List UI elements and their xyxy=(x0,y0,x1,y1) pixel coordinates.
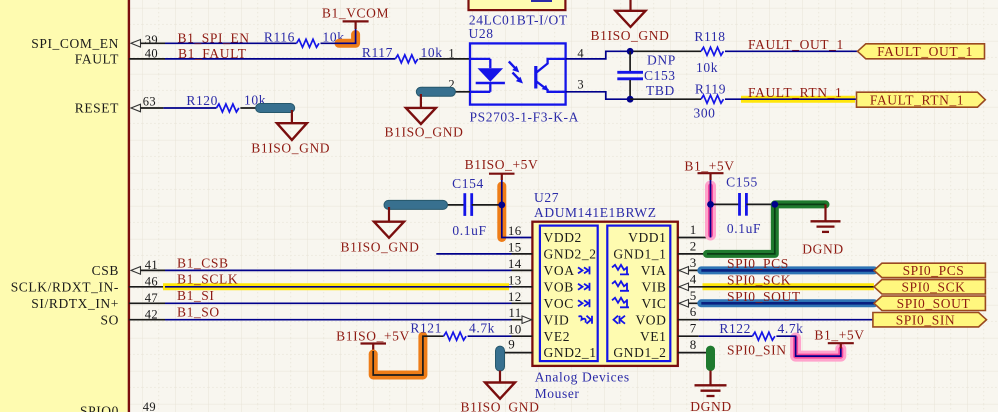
ground B1ISO_GND (pin9, clipped) xyxy=(461,371,540,412)
port SPI0_PCS xyxy=(874,263,985,278)
capacitor C155 xyxy=(711,175,775,237)
svg-text:VOB: VOB xyxy=(544,279,574,294)
U27 right pin names xyxy=(613,230,666,360)
pin 46 stub wire xyxy=(129,286,165,288)
svg-text:FAULT: FAULT xyxy=(75,52,119,67)
port FAULT_OUT_1 xyxy=(858,44,985,59)
svg-text:12: 12 xyxy=(508,289,522,304)
wire R121 to pin10 xyxy=(468,335,512,337)
svg-text:1: 1 xyxy=(690,222,697,237)
svg-text:SPI0_SIN: SPI0_SIN xyxy=(727,343,787,358)
svg-text:SI/RDTX_IN+: SI/RDTX_IN+ xyxy=(31,296,119,311)
pin 42 stub wire xyxy=(129,319,165,321)
power B1_+5V (C155) xyxy=(684,159,734,181)
svg-text:R117: R117 xyxy=(362,45,393,60)
wire U28 pin4 to node xyxy=(566,51,631,59)
svg-text:300: 300 xyxy=(693,106,715,121)
U28 pin2 stub xyxy=(455,91,470,93)
svg-text:10: 10 xyxy=(508,322,522,337)
svg-text:RESET: RESET xyxy=(75,101,119,116)
svg-text:VOD: VOD xyxy=(635,312,666,327)
svg-text:R118: R118 xyxy=(694,29,725,44)
svg-text:B1ISO_+5V: B1ISO_+5V xyxy=(465,157,539,172)
teal net-color bar U28 pin2 xyxy=(416,87,455,96)
wire B1ISO_+5V to R121 (orange highlight) xyxy=(373,336,443,375)
wire B1_SO xyxy=(165,319,512,321)
wire pin8 to DGND xyxy=(710,353,712,371)
svg-text:SPI0_SIN: SPI0_SIN xyxy=(896,312,956,327)
svg-text:B1_+5V: B1_+5V xyxy=(814,328,864,343)
svg-text:2: 2 xyxy=(690,238,697,253)
ground B1ISO_GND (top) xyxy=(591,0,670,43)
resistor R120 xyxy=(186,93,266,113)
U27 right pin numbers xyxy=(690,222,697,352)
svg-text:SPI0_SCK: SPI0_SCK xyxy=(901,279,965,294)
svg-text:0.1uF: 0.1uF xyxy=(452,223,486,238)
svg-text:VDD1: VDD1 xyxy=(628,230,666,245)
wire R122 to B1_+5V (pink highlight) xyxy=(776,336,840,356)
wire GND1_1 to DGND (green highlight) xyxy=(707,204,826,254)
svg-text:DGND: DGND xyxy=(690,399,731,412)
wire B1_SPI_EN left xyxy=(165,42,297,44)
node junction bottom of C153 xyxy=(627,96,634,103)
svg-text:3: 3 xyxy=(577,78,584,92)
wire R117 to U28 pin1 xyxy=(419,58,470,60)
svg-text:1: 1 xyxy=(448,47,455,61)
svg-text:VE1: VE1 xyxy=(640,329,667,344)
resistor R121 xyxy=(410,321,495,341)
svg-text:VOA: VOA xyxy=(544,263,575,278)
power B1ISO_+5V (R121) xyxy=(336,329,410,352)
U27 left pin names xyxy=(544,230,597,360)
svg-text:SPI0_SCK: SPI0_SCK xyxy=(727,272,791,287)
pin 40 stub wire xyxy=(129,58,165,60)
svg-text:5: 5 xyxy=(690,288,697,303)
svg-text:FAULT_OUT_1: FAULT_OUT_1 xyxy=(877,44,973,59)
svg-text:B1ISO_GND: B1ISO_GND xyxy=(461,400,540,412)
svg-text:VID: VID xyxy=(544,312,570,327)
green net-color bar pin8 xyxy=(706,346,715,372)
teal net-color bar C154 xyxy=(384,200,448,209)
svg-text:VIB: VIB xyxy=(641,279,666,294)
svg-text:C155: C155 xyxy=(726,175,758,190)
ground B1ISO_GND (C154) xyxy=(341,207,420,255)
svg-text:14: 14 xyxy=(508,256,522,271)
svg-text:PS2703-1-F3-K-A: PS2703-1-F3-K-A xyxy=(470,110,580,125)
svg-text:B1ISO_GND: B1ISO_GND xyxy=(251,141,330,156)
power B1_+5V (R122) xyxy=(814,328,864,349)
capacitor C154 xyxy=(447,176,502,238)
svg-text:C153: C153 xyxy=(644,68,676,83)
svg-text:11: 11 xyxy=(508,305,521,320)
pin 11 input arrow xyxy=(522,316,532,324)
svg-text:4: 4 xyxy=(690,271,697,286)
teal net-color bar pin9 xyxy=(496,346,505,371)
svg-text:SPI0_PCS: SPI0_PCS xyxy=(903,263,965,278)
svg-text:SO: SO xyxy=(101,312,119,327)
port FAULT_RTN_1 xyxy=(857,92,986,107)
wire U28 pin3 to node xyxy=(566,92,631,99)
wire node to R119 xyxy=(630,98,701,100)
pin 3 input arrow xyxy=(679,267,689,275)
U28 light arrows xyxy=(509,62,523,84)
svg-text:VIA: VIA xyxy=(641,263,667,278)
connector J? left block body xyxy=(0,0,129,412)
U28 LED xyxy=(470,59,505,92)
svg-text:R121: R121 xyxy=(410,321,442,336)
svg-text:VDD2: VDD2 xyxy=(544,230,582,245)
svg-text:B1_SO: B1_SO xyxy=(177,305,220,320)
svg-text:B1_VCOM: B1_VCOM xyxy=(322,6,389,21)
capacitor C153 xyxy=(617,51,676,99)
svg-text:SPI0_PCS: SPI0_PCS xyxy=(727,256,789,271)
svg-text:GND1_2: GND1_2 xyxy=(613,345,666,360)
wire B1ISO_+5V down to pin16 (orange highlight) xyxy=(502,180,533,238)
svg-text:4.7k: 4.7k xyxy=(778,321,804,336)
svg-text:VE2: VE2 xyxy=(544,329,571,344)
svg-text:15: 15 xyxy=(508,239,522,254)
svg-text:B1_SCLK: B1_SCLK xyxy=(177,272,238,287)
wire B1_FAULT xyxy=(165,58,395,60)
svg-text:7: 7 xyxy=(690,321,697,336)
svg-text:B1ISO_GND: B1ISO_GND xyxy=(591,28,670,43)
svg-text:R120: R120 xyxy=(186,93,218,108)
svg-text:VOC: VOC xyxy=(544,296,574,311)
resistor R122 xyxy=(719,321,803,340)
ground B1ISO_GND (U28 pin2) xyxy=(385,94,464,140)
svg-text:U28: U28 xyxy=(469,26,494,41)
pin 47 stub wire xyxy=(129,302,165,304)
resistor R116 xyxy=(264,29,345,47)
svg-text:SPIO0: SPIO0 xyxy=(80,404,119,412)
isolator U27 body xyxy=(532,222,677,366)
svg-text:10k: 10k xyxy=(696,60,718,75)
svg-text:B1_+5V: B1_+5V xyxy=(684,159,734,174)
pin 41 stub wire xyxy=(131,267,165,275)
node junction C155/GND xyxy=(771,201,778,208)
svg-text:SPI0_SOUT: SPI0_SOUT xyxy=(727,289,801,304)
power B1ISO_+5V (C154) xyxy=(465,157,539,180)
svg-text:FAULT_RTN_1: FAULT_RTN_1 xyxy=(870,92,964,107)
port SPI0_SOUT xyxy=(874,296,985,311)
svg-text:ADUM141E1BRWZ: ADUM141E1BRWZ xyxy=(534,205,657,220)
wire pin9 to ground xyxy=(499,353,501,371)
svg-text:DNP: DNP xyxy=(647,53,676,68)
svg-text:8: 8 xyxy=(690,337,697,352)
svg-text:GND2_1: GND2_1 xyxy=(544,345,597,360)
svg-text:B1_SI: B1_SI xyxy=(177,288,215,303)
pin 4 input arrow xyxy=(679,283,689,291)
svg-text:GND1_1: GND1_1 xyxy=(613,247,666,262)
svg-text:SCLK/RDXT_IN-: SCLK/RDXT_IN- xyxy=(11,279,119,294)
wire R119 to port (yellow highlight) xyxy=(725,96,857,103)
node junction B1_+5V/C155 xyxy=(707,201,714,208)
wire R120 right xyxy=(240,107,258,109)
resistor R118 xyxy=(694,29,725,75)
wire GND2_2 stub (pin15) xyxy=(436,253,511,255)
port SPI0_SIN xyxy=(873,312,987,327)
U27 left pin stubs xyxy=(500,254,532,353)
svg-text:VIC: VIC xyxy=(641,296,666,311)
svg-text:63: 63 xyxy=(143,95,156,109)
pin 63 stub wire xyxy=(131,104,163,112)
ground B1ISO_GND (R120) xyxy=(251,110,330,156)
teal net-color bar R120 xyxy=(256,104,295,113)
U28 photo-transistor xyxy=(536,59,566,92)
wire B1_CSB xyxy=(165,269,512,271)
ground DGND (pin8) xyxy=(690,371,731,412)
svg-text:49: 49 xyxy=(143,400,156,412)
svg-text:FAULT_RTN_1: FAULT_RTN_1 xyxy=(748,85,842,100)
power B1_VCOM xyxy=(322,6,389,30)
wire R116 to B1_VCOM (orange highlight) xyxy=(321,29,356,44)
svg-text:9: 9 xyxy=(508,337,515,352)
port SPI0_SCK xyxy=(874,279,985,294)
wire RESET to R120 xyxy=(163,107,216,109)
pin 39 stub wire xyxy=(131,40,165,48)
svg-text:B1ISO_GND: B1ISO_GND xyxy=(341,240,420,255)
wire R118 to port xyxy=(725,50,858,52)
svg-text:13: 13 xyxy=(508,272,522,287)
svg-text:B1_SPI_EN: B1_SPI_EN xyxy=(178,31,250,46)
svg-text:3: 3 xyxy=(690,255,697,270)
svg-text:GND2_2: GND2_2 xyxy=(544,247,597,262)
ground DGND (C155) xyxy=(802,204,843,256)
svg-text:4.7k: 4.7k xyxy=(469,321,495,336)
svg-text:C154: C154 xyxy=(452,176,484,191)
svg-text:10k: 10k xyxy=(421,45,443,60)
24LC01 component clipped box xyxy=(469,0,566,10)
svg-text:FAULT_OUT_1: FAULT_OUT_1 xyxy=(748,37,844,52)
U27 channel icons xyxy=(578,265,629,324)
wire VE1 to R122 xyxy=(699,335,753,337)
svg-text:16: 16 xyxy=(508,223,522,238)
wire SPI0_SOUT (blue highlight) xyxy=(701,299,874,307)
svg-text:B1_CSB: B1_CSB xyxy=(177,255,229,270)
wire B1_SI xyxy=(165,302,512,304)
wire B1_SCLK (yellow highlight) xyxy=(163,283,512,290)
svg-text:6: 6 xyxy=(690,304,697,319)
svg-text:R116: R116 xyxy=(264,29,295,44)
svg-text:B1ISO_GND: B1ISO_GND xyxy=(385,125,464,140)
svg-text:Mouser: Mouser xyxy=(535,386,580,401)
opto-coupler U28 box xyxy=(470,43,566,104)
wire node to R118 xyxy=(630,50,701,52)
wire B1_+5V down to pin1 (pink highlight) xyxy=(705,180,716,238)
node junction top of C153 xyxy=(627,48,634,55)
svg-text:4: 4 xyxy=(577,47,584,61)
wire SPI0_SCK (yellow highlight) xyxy=(703,283,875,290)
U27 right pin stubs xyxy=(678,238,711,353)
node junction C154/B1ISO_+5V xyxy=(498,202,505,209)
resistor R117 xyxy=(362,45,443,63)
wire SPI0_PCS (blue highlight) xyxy=(701,266,874,274)
svg-text:U27: U27 xyxy=(534,190,559,205)
pin 5 input arrow xyxy=(679,300,689,308)
svg-text:Analog Devices: Analog Devices xyxy=(535,370,630,385)
U27 left pin numbers xyxy=(508,223,522,352)
svg-text:B1ISO_+5V: B1ISO_+5V xyxy=(336,329,410,344)
wire SPI0_SIN xyxy=(699,319,873,321)
svg-text:SPI0_SOUT: SPI0_SOUT xyxy=(897,296,971,311)
svg-text:B1_FAULT: B1_FAULT xyxy=(178,46,247,61)
svg-text:39: 39 xyxy=(145,33,158,47)
svg-text:R122: R122 xyxy=(719,321,751,336)
svg-text:DGND: DGND xyxy=(802,242,843,257)
svg-text:SPI_COM_EN: SPI_COM_EN xyxy=(31,36,119,51)
resistor R119 xyxy=(693,82,726,121)
svg-text:0.1uF: 0.1uF xyxy=(727,221,761,236)
svg-text:TBD: TBD xyxy=(646,83,675,98)
svg-text:CSB: CSB xyxy=(92,263,119,278)
